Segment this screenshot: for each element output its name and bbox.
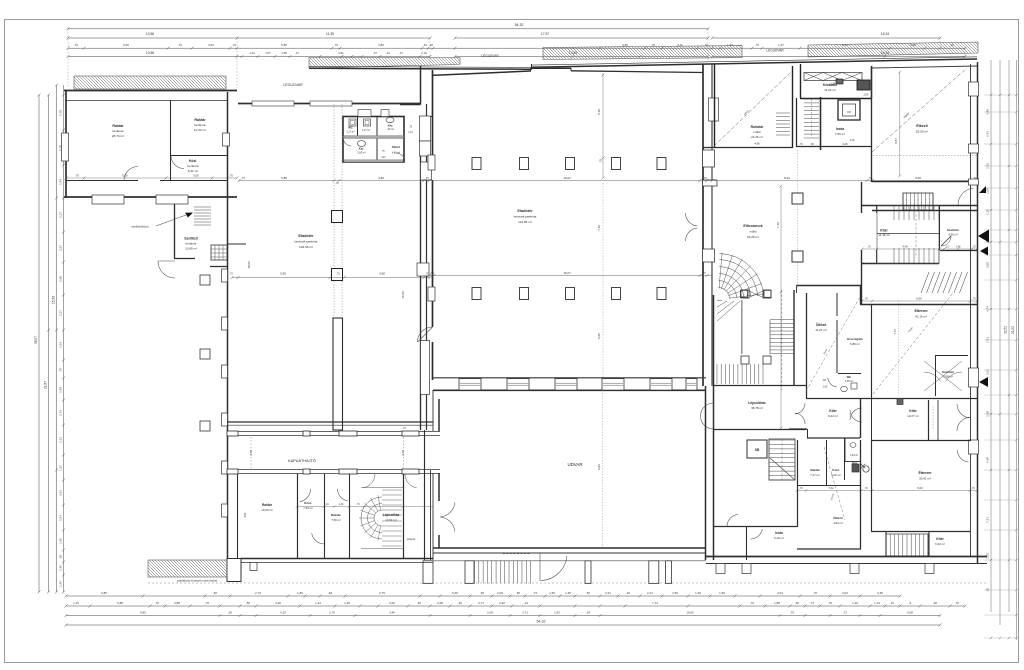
svg-text:4,74: 4,74 [986,306,990,312]
kaz fixture [863,466,869,472]
stairwell bottom run [717,364,763,384]
svg-text:6,00: 6,00 [916,297,922,301]
NW wing west window box [62,133,69,161]
svg-text:kerámia: kerámia [187,164,198,168]
south facade small tab [250,563,257,571]
svg-text:Közl.: Közl. [189,159,197,163]
svg-text:,40: ,40 [417,601,421,605]
svg-text:,50: ,50 [795,601,799,605]
szellozo grid square [211,245,227,260]
svg-text:szellőzőkürtő: szellőzőkürtő [131,225,149,229]
svg-text:kerámia: kerámia [186,242,197,246]
szellozo 436 door diagonal [941,236,951,246]
ruhatar south wall [703,147,793,149]
svg-text:6,32 m²: 6,32 m² [935,542,945,546]
courtyard centre dashline [602,390,604,548]
courtyard arcade piers [423,561,433,584]
south facade corner pier [227,559,241,582]
sb box [747,440,767,458]
iroda lift box [838,100,860,120]
svg-text:1,15: 1,15 [73,601,79,605]
svg-text:,70: ,70 [702,271,706,275]
bottom dimension chain row 3 [66,615,940,617]
svg-text:1,48: 1,48 [956,246,961,249]
svg-text:,74: ,74 [810,601,814,605]
svg-text:WC: WC [847,375,852,379]
NW wing bottom window boxes [92,195,124,204]
svg-text:7,74: 7,74 [893,329,897,335]
svg-text:,9: ,9 [909,601,912,605]
elocsarnok pier A [792,193,803,204]
NW wing interior partition vertical [170,100,172,180]
svg-text:LÉGUDVAR: LÉGUDVAR [766,48,784,53]
hall east wall pilaster [703,150,715,167]
kapuathajto corridor walls [227,431,440,433]
se dim row y490 [797,490,977,492]
west long wall x227 [227,92,229,560]
etkezo52 stairs [903,193,933,210]
svg-text:7,50 m²: 7,50 m² [331,518,341,522]
svg-text:1,44: 1,44 [315,601,321,605]
svg-text:,70: ,70 [813,591,817,595]
keziatado walls [800,64,802,98]
svg-text:,60 m²: ,60 m² [387,128,394,131]
svg-text:Raktár: Raktár [262,503,273,507]
ruhatar east wall [792,66,794,148]
curved stair fan [718,288,730,299]
svg-text:pihenő: pihenő [407,537,416,541]
svg-text:41,16 m²: 41,16 m² [915,315,927,319]
svg-text:4,80: 4,80 [986,109,990,115]
svg-text:Öltöző: Öltöző [816,322,827,327]
svg-text:10,42 m²: 10,42 m² [194,128,206,132]
svg-text:4,80: 4,80 [378,176,384,180]
etkezo52 diagonal dashed [872,68,967,152]
svg-text:3,71: 3,71 [522,610,528,614]
svg-text:30,41 m²: 30,41 m² [919,477,931,481]
svg-text:5,16 m²: 5,16 m² [774,536,784,540]
svg-text:Étterem: Étterem [914,308,927,313]
svg-text:,72: ,72 [843,610,847,614]
svg-text:3,46: 3,46 [389,610,395,614]
svg-text:13,04 m²: 13,04 m² [385,518,396,522]
svg-text:16,07: 16,07 [563,271,571,275]
svg-text:Ruhatár: Ruhatár [751,125,764,129]
sw rooms partitions [297,474,299,559]
svg-text:,32: ,32 [626,591,630,595]
stairwell left winder [717,301,740,322]
svg-text:7,56 m²: 7,56 m² [835,132,845,136]
svg-text:4,20: 4,20 [275,601,281,605]
south facade wall left block [241,558,433,560]
svg-text:3,04: 3,04 [777,591,783,595]
svg-text:1,94: 1,94 [59,515,63,521]
svg-text:,70: ,70 [867,246,871,249]
svg-text:7,02: 7,02 [828,486,834,490]
iroda NE stairs [804,99,819,138]
section arrow east A [978,230,989,243]
svg-text:LÉGUDVAR: LÉGUDVAR [481,53,499,58]
svg-text:,70: ,70 [335,181,339,185]
iroda NE walls [796,98,798,147]
svg-text:7,47 m²: 7,47 m² [810,473,820,477]
svg-text:,70: ,70 [430,271,434,275]
hall south wall band with window boxes [433,377,706,379]
svg-text:3,61: 3,61 [338,51,344,55]
svg-text:11,35: 11,35 [326,32,334,36]
svg-text:5,05: 5,05 [597,333,601,339]
colonnade dotted lines [333,104,335,210]
svg-text:10,56: 10,56 [146,51,154,55]
svg-text:,70: ,70 [178,43,182,47]
svg-text:54,32: 54,32 [515,23,524,27]
small square shaft C [200,421,210,431]
svg-text:kerámia: kerámia [112,129,123,133]
svg-text:,70: ,70 [205,601,209,605]
bottom dimension chain row 1 [66,595,900,597]
svg-text:2,92: 2,92 [554,610,560,614]
svg-text:1,45: 1,45 [59,581,63,587]
svg-text:3,88: 3,88 [174,601,180,605]
ktter band top wall [861,205,977,207]
svg-text:laminált parketta: laminált parketta [295,240,318,244]
courtyard west wall [438,399,440,431]
right wing stair diag [921,272,929,293]
svg-text:9,85: 9,85 [101,591,107,595]
ktter U stair [877,206,939,264]
svg-text:,70: ,70 [864,298,868,301]
svg-text:38,78 m²: 38,78 m² [751,406,763,410]
svg-text:1,26: 1,26 [850,139,855,142]
sw east wall of block [424,430,426,560]
left dimension chains [38,95,40,592]
svg-text:2,70: 2,70 [249,450,253,456]
svg-text:6,41 m²: 6,41 m² [188,169,199,173]
svg-text:,41: ,41 [386,51,390,55]
svg-text:Kézátadó: Kézátadó [823,83,837,87]
svg-text:Közl.: Közl. [304,501,312,505]
column squares row2 [472,288,481,300]
svg-text:,70: ,70 [599,159,603,163]
svg-text:,70: ,70 [750,601,754,605]
svg-text:11,97 m²: 11,97 m² [815,328,827,332]
svg-text:,30: ,30 [986,588,990,592]
svg-text:5,85: 5,85 [280,272,286,276]
sw spiral stair [374,510,382,526]
etkezo3041 walls [871,440,873,531]
svg-text:3,00: 3,00 [193,174,199,178]
svg-text:2,00 m²: 2,00 m² [357,152,365,155]
oltozo walls [806,293,808,398]
svg-text:1,44: 1,44 [339,503,344,506]
svg-text:,70: ,70 [972,298,976,301]
svg-text:,70: ,70 [232,43,236,47]
svg-text:,50: ,50 [586,591,590,595]
svg-text:1,17 m²: 1,17 m² [346,130,354,133]
block top windows [252,101,294,106]
kapuathajto dotted sides [250,437,252,469]
svg-text:LÉGUDVAR: LÉGUDVAR [283,82,303,87]
east wall window boxes [420,116,431,141]
svg-text:1,58: 1,58 [281,51,287,55]
NW jog wall vertical x420 [420,66,422,105]
svg-text:1,45: 1,45 [59,538,63,544]
elocsarnok east wall pair [861,182,863,213]
stairwell west wall [713,295,715,560]
svg-text:52,93 m²: 52,93 m² [916,130,928,134]
svg-text:Kttér: Kttér [880,229,888,233]
szellozo room bottom wall [174,258,195,260]
svg-text:3,26: 3,26 [842,142,848,146]
svg-text:6,89 m²: 6,89 m² [850,342,860,346]
svg-text:21,52: 21,52 [1011,326,1015,334]
svg-text:1,17 m²: 1,17 m² [362,129,370,132]
svg-text:2,36: 2,36 [986,163,990,169]
svg-text:Eladótér: Eladótér [298,234,314,238]
svg-text:,60: ,60 [59,555,63,559]
svg-text:Raktár: Raktár [810,468,820,472]
svg-text:Raktár: Raktár [331,513,341,517]
NW jog wall horizontal [400,104,421,106]
svg-text:Öltöző: Öltöző [392,145,401,149]
svg-text:Étkező: Étkező [916,123,928,128]
svg-text:7,14: 7,14 [652,601,658,605]
svg-text:,50: ,50 [228,610,232,614]
ktter divider wall [860,398,862,438]
svg-text:,50: ,50 [213,591,217,595]
svg-text:1,04 m²: 1,04 m² [850,454,858,457]
south facade wall right wing [706,556,987,558]
ktter842 door arcs [850,410,862,422]
svg-text:11,03 m²: 11,03 m² [824,88,836,92]
svg-text:24,26 m²: 24,26 m² [751,135,763,139]
NW wing bottom wall [64,196,92,198]
hall west wall door recess [421,162,432,180]
svg-text:18,06: 18,06 [247,261,251,269]
right dimension chains [990,60,992,612]
stairwell door arcs [701,416,714,429]
ktter partition [939,205,941,250]
top dimension chain row 2 [68,37,430,39]
svg-text:16,34: 16,34 [881,32,889,36]
svg-text:114,86 m²: 114,86 m² [518,220,532,224]
stairwell right run [770,320,794,354]
svg-text:műkő: műkő [749,230,757,234]
svg-text:22,52: 22,52 [1004,326,1008,334]
svg-text:,70: ,70 [864,487,868,490]
hall centre dash-dot line [602,73,604,178]
svg-text:2,06: 2,06 [823,386,828,389]
hall west wall x432 [432,70,434,162]
svg-text:16,06: 16,06 [401,291,405,299]
sb room door arc [727,515,738,527]
svg-text:7,40: 7,40 [776,222,780,228]
svg-text:21,87: 21,87 [44,381,48,389]
svg-text:11,39 m²: 11,39 m² [878,233,889,237]
courtyard exterior door arc [541,556,567,581]
NW wing interior dim row [66,177,237,179]
svg-text:4,66: 4,66 [622,43,628,47]
svg-text:54,32: 54,32 [537,620,546,624]
svg-text:16,07: 16,07 [563,176,571,180]
block internal dim line y277 [232,277,430,279]
svg-text:,70: ,70 [155,601,159,605]
svg-text:1,80: 1,80 [297,591,303,595]
NW wing interior south partition [66,180,138,182]
svg-text:,70: ,70 [955,601,959,605]
svg-text:,24: ,24 [524,601,528,605]
svg-text:2,09: 2,09 [497,591,503,595]
colonnade pier A [332,211,343,223]
svg-text:Iroda: Iroda [775,531,783,535]
svg-text:1,50: 1,50 [549,591,555,595]
svg-text:2,13: 2,13 [59,437,63,443]
svg-text:3,71: 3,71 [478,601,484,605]
svg-text:,70: ,70 [703,176,707,180]
block top wall y103 [238,103,252,105]
svg-text:2,70: 2,70 [401,450,405,456]
stairwell direction dashed [781,290,783,390]
svg-text:csatlakozó Kossuth utcai épüle: csatlakozó Kossuth utcai épület [177,579,218,583]
svg-text:5,46: 5,46 [452,591,458,595]
south facade piers [716,564,725,574]
stairwell south wall [713,429,806,431]
courtyard south wall [433,547,706,549]
ktter band bottom wall [861,263,939,265]
svg-text:1,50: 1,50 [719,591,725,595]
svg-text:6,08: 6,08 [907,610,913,614]
elocsarnok dim line x781 [780,186,782,428]
svg-text:4,48: 4,48 [902,245,908,249]
svg-text:3,02: 3,02 [842,591,848,595]
svg-text:2,28: 2,28 [986,411,990,417]
svg-text:Kttér: Kttér [909,409,917,413]
svg-text:,70: ,70 [229,272,233,276]
svg-text:6,00: 6,00 [915,176,921,180]
svg-text:2,17: 2,17 [59,310,63,316]
svg-text:4,36 m²: 4,36 m² [948,233,958,237]
svg-text:Kéz.: Kéz. [388,124,394,128]
svg-text:Kiszolgáló: Kiszolgáló [847,337,863,341]
svg-text:,47: ,47 [399,51,403,55]
svg-text:94,65 m²: 94,65 m² [747,235,759,239]
svg-text:38,57: 38,57 [34,336,38,344]
svg-text:5,85: 5,85 [281,43,287,47]
svg-text:1,45: 1,45 [59,565,63,571]
svg-text:,70: ,70 [799,487,803,490]
keziatado xbrace strip [804,73,862,81]
szellozo stairs [194,207,211,225]
svg-text:2,61: 2,61 [605,591,611,595]
section arrow east B [979,377,988,387]
svg-text:UDVAR: UDVAR [567,462,582,467]
svg-text:,50: ,50 [246,601,250,605]
NW wing interior partition horizontal small [170,155,227,157]
svg-text:Kttér: Kttér [829,409,837,413]
hall top wall [432,71,531,75]
north boundary wall A [309,67,532,70]
svg-text:KAPUÁTHAJTÓ: KAPUÁTHAJTÓ [288,458,316,463]
svg-text:3,00: 3,00 [208,43,214,47]
svg-text:,70: ,70 [336,272,340,276]
szellozo368 room [935,355,937,396]
svg-text:1,64: 1,64 [59,342,63,348]
svg-text:3,48: 3,48 [877,591,883,595]
svg-text:2,79: 2,79 [379,591,385,595]
hall east wall pair [702,64,704,386]
svg-text:,70: ,70 [75,174,79,178]
ktter842 band walls [789,428,807,430]
bottom dimension chain row 2 [66,605,965,607]
svg-text:5,02 m²: 5,02 m² [831,473,841,477]
top dimension chain row 4 [68,55,430,57]
svg-text:8,42 m²: 8,42 m² [828,414,838,418]
svg-text:0,8: 0,8 [847,110,851,114]
svg-text:2,08: 2,08 [437,601,443,605]
svg-text:10,56: 10,56 [146,32,154,36]
lower partition walls A [797,440,799,527]
svg-text:2,21: 2,21 [647,591,653,595]
svg-text:5,18: 5,18 [597,109,601,115]
svg-text:9,85: 9,85 [140,610,146,614]
elocsarnok pier B [792,251,803,262]
svg-text:2,06: 2,06 [864,94,869,97]
svg-text:2,76: 2,76 [329,610,335,614]
keziatado dark box [857,80,870,90]
east wall of block x420-426 [420,116,422,430]
svg-text:2,73: 2,73 [255,591,261,595]
svg-text:2,09: 2,09 [487,610,493,614]
svg-text:2,92: 2,92 [986,369,990,375]
svg-text:1,29: 1,29 [986,209,990,215]
svg-text:Iroda: Iroda [836,127,844,131]
site boundary dotted [148,582,987,584]
svg-text:1,00 m²: 1,00 m² [845,380,854,383]
etkezo52 inner dim line [899,72,901,176]
svg-text:kerámia: kerámia [194,123,205,127]
svg-text:Kttér: Kttér [936,537,944,541]
courtyard arcade top line [423,560,706,562]
svg-text:28,74 m²: 28,74 m² [112,134,124,138]
right wing wall y300 [860,304,977,306]
svg-text:,47: ,47 [373,51,377,55]
svg-text:Öltöző: Öltöző [833,516,843,520]
small square shaft A [200,275,210,285]
svg-text:1,37: 1,37 [778,43,784,47]
wc block door arcs [343,138,351,146]
svg-text:3,62: 3,62 [244,512,247,517]
WC sanitary block [343,117,404,163]
svg-text:7,40: 7,40 [597,225,601,231]
etkezo52 SE door arc [958,188,973,206]
NW wing door arc [124,167,138,181]
svg-text:6,41: 6,41 [986,131,990,137]
svg-text:,20: ,20 [458,601,462,605]
colonnade pier B [332,269,343,281]
top witness dotted verticals [68,29,965,88]
svg-text:4,80: 4,80 [379,272,385,276]
svg-text:,70: ,70 [425,272,429,276]
svg-text:,60: ,60 [933,601,937,605]
svg-text:Kaz.: Kaz. [852,461,858,465]
right outer east wall [977,62,979,563]
small square shaft B [200,349,210,359]
sw door arcs [300,489,311,502]
svg-text:Előcsarnok: Előcsarnok [743,224,762,228]
north boundary wall B [532,59,978,67]
svg-text:2,92: 2,92 [499,601,505,605]
svg-text:1,37: 1,37 [59,465,63,471]
